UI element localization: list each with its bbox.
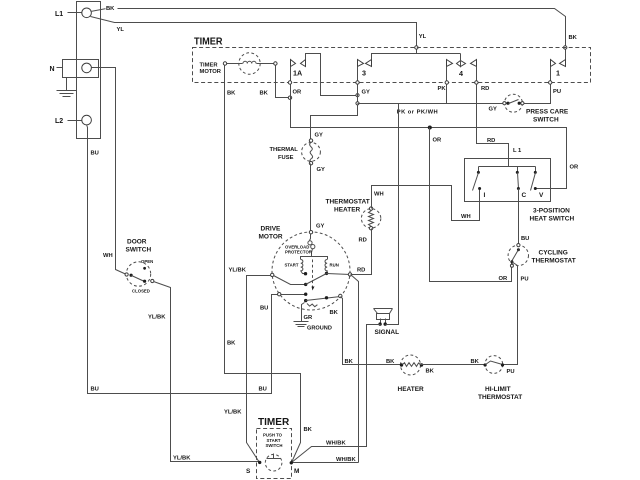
cycling thermostat S5 — [508, 244, 528, 268]
svg-text:SWITCH: SWITCH — [533, 117, 559, 124]
3-position heat switch S3 — [465, 159, 551, 202]
svg-text:L1: L1 — [55, 11, 63, 18]
timer motor M1 — [223, 53, 277, 74]
svg-text:BU: BU — [91, 151, 99, 157]
svg-text:MOTOR: MOTOR — [259, 234, 283, 241]
label 3-POSITION HEAT SWITCH — [530, 207, 575, 222]
svg-text:N: N — [50, 66, 55, 73]
label PRESS CARE SWITCH — [526, 109, 569, 124]
svg-text:BK: BK — [227, 341, 236, 347]
label DOOR SWITCH — [126, 239, 152, 254]
svg-text:HEATER: HEATER — [334, 206, 361, 213]
node GY at timer border — [356, 81, 359, 84]
svg-text:BK: BK — [106, 6, 115, 12]
svg-text:WH/BK: WH/BK — [326, 441, 346, 447]
node BK at timer border — [564, 46, 567, 49]
svg-text:HEAT SWITCH: HEAT SWITCH — [530, 215, 575, 222]
ground symbol at neutral — [57, 78, 77, 97]
svg-text:PU: PU — [553, 89, 561, 95]
motor winding top bracket — [301, 257, 328, 260]
svg-text:BU: BU — [521, 236, 529, 242]
start winding — [301, 260, 306, 274]
label PK or PK/WH — [396, 105, 445, 115]
svg-text:DOOR: DOOR — [127, 239, 147, 246]
svg-text:YL/BK: YL/BK — [224, 410, 242, 416]
wire WH neutral to door switch — [92, 68, 127, 275]
svg-text:YL/BK: YL/BK — [229, 267, 247, 273]
svg-text:HEATER: HEATER — [398, 386, 425, 393]
label CYCLING THERMOSTAT — [532, 250, 576, 265]
svg-text:OR: OR — [499, 276, 509, 282]
svg-text:GY: GY — [489, 106, 498, 112]
label HI-LIMIT THERMOSTAT — [478, 386, 522, 401]
timer box (top) — [193, 48, 591, 83]
svg-text:SWITCH: SWITCH — [126, 247, 152, 254]
node OR at timer border — [288, 81, 291, 84]
overload protector — [308, 234, 315, 257]
svg-text:YL/BK: YL/BK — [148, 314, 166, 320]
wire BU heat switch C to cycling thermostat — [518, 189, 520, 246]
svg-text:TIMER: TIMER — [200, 63, 219, 69]
terminal L2 label — [55, 118, 82, 125]
svg-text:RD: RD — [487, 138, 495, 144]
svg-text:MOTOR: MOTOR — [200, 69, 222, 75]
svg-text:M: M — [294, 468, 299, 475]
wire OR junction to cycling thermostat — [430, 128, 512, 282]
timer push-to-start box — [257, 429, 292, 479]
wire WH/BK lower to motor RD node — [351, 275, 359, 463]
svg-text:1: 1 — [556, 69, 560, 78]
label DRIVE MOTOR — [259, 226, 283, 241]
wire BK motor switch to heater — [341, 297, 402, 365]
signal buzzer LS1 — [374, 309, 393, 326]
svg-text:RD: RD — [357, 267, 365, 273]
svg-text:YL: YL — [117, 27, 125, 33]
svg-text:V: V — [539, 192, 544, 199]
svg-text:GY: GY — [316, 224, 325, 230]
svg-text:BU: BU — [91, 386, 99, 392]
node 1A blade to GY pole — [356, 94, 359, 97]
wire PU contact 1 pole to press care switch — [523, 67, 551, 104]
svg-text:TIMER: TIMER — [194, 36, 223, 48]
wire GY thermal fuse to drive motor — [310, 164, 312, 233]
svg-text:S: S — [246, 468, 251, 475]
wire OR contact 1A pole to heat switch V — [291, 67, 567, 189]
terminal block TB1 — [63, 2, 101, 139]
svg-text:RUN: RUN — [330, 263, 339, 268]
svg-text:GROUND: GROUND — [307, 326, 332, 332]
label TIMER MOTOR — [200, 63, 222, 76]
label BK (top left) — [106, 3, 118, 12]
svg-text:DRIVE: DRIVE — [261, 226, 282, 233]
svg-text:BK: BK — [227, 91, 236, 97]
timer contact 4 — [447, 54, 477, 79]
svg-text:BK: BK — [260, 91, 269, 97]
centrifugal actuator dashed line with arrow — [312, 260, 315, 291]
svg-text:WH: WH — [374, 191, 384, 197]
run winding — [325, 260, 328, 274]
svg-text:WH: WH — [461, 214, 471, 220]
push-to-start switch S4 — [258, 454, 293, 472]
svg-text:OR: OR — [293, 90, 303, 96]
hi-limit thermostat S6 — [484, 356, 505, 374]
wire BU from L2 to drive motor — [87, 125, 306, 394]
wire BK heater to hi-limit — [420, 364, 486, 366]
node BU at motor circle edge — [278, 293, 281, 296]
press care switch S2 — [503, 94, 524, 112]
svg-text:BK: BK — [304, 427, 313, 433]
label PUSH TO START SWITCH — [263, 433, 283, 449]
label THERMAL FUSE — [270, 147, 299, 161]
wire YL/BK branch to drive motor — [247, 276, 271, 463]
svg-text:4: 4 — [459, 69, 463, 78]
svg-text:THERMOSTAT: THERMOSTAT — [326, 198, 370, 205]
svg-text:TIMER: TIMER — [258, 416, 290, 428]
terminal N label — [50, 66, 63, 73]
motor ground blade — [304, 294, 342, 306]
svg-text:BK: BK — [345, 359, 354, 365]
svg-text:I: I — [484, 192, 486, 199]
node BK-OR junction — [288, 96, 291, 99]
svg-text:BK: BK — [426, 368, 435, 374]
svg-text:SIGNAL: SIGNAL — [375, 329, 400, 336]
door switch S1 — [125, 262, 154, 286]
svg-text:3: 3 — [362, 69, 366, 78]
svg-text:CLOSED: CLOSED — [132, 289, 150, 294]
svg-text:PU: PU — [507, 369, 515, 375]
svg-text:START: START — [267, 438, 281, 443]
svg-text:C: C — [522, 192, 527, 199]
contact BU (motor) — [304, 293, 307, 296]
wire YL from L1 to timer — [91, 17, 417, 54]
svg-text:START: START — [285, 263, 299, 268]
wire PK contact 4 pole — [446, 67, 448, 104]
wire PK/GY node to press care switch — [358, 103, 503, 105]
svg-text:SWITCH: SWITCH — [266, 443, 283, 448]
node GY at motor circle — [309, 231, 312, 234]
svg-text:THERMOSTAT: THERMOSTAT — [478, 394, 522, 401]
wire GY contact 3 pole to thermal fuse — [311, 67, 358, 141]
svg-text:OR: OR — [570, 164, 580, 170]
svg-text:BU: BU — [259, 386, 267, 392]
svg-text:3-POSITION: 3-POSITION — [533, 207, 570, 214]
svg-text:1A: 1A — [293, 69, 302, 78]
svg-text:GR: GR — [304, 315, 314, 321]
node RD at timer border — [475, 81, 478, 84]
svg-text:BU: BU — [260, 306, 268, 312]
svg-text:OPEN: OPEN — [141, 259, 153, 264]
label OVERLOAD PROTECTOR — [285, 244, 313, 254]
thermal fuse F1 — [302, 139, 321, 165]
wire BK from L1 to timer contact 1 — [91, 9, 566, 60]
svg-text:CYCLING: CYCLING — [539, 250, 568, 257]
wire BK timer motor left to push-to-start M — [225, 66, 301, 463]
timer contact 3 — [358, 54, 461, 78]
wire WH/BK lower horizontal to push-to-start M — [292, 462, 359, 464]
svg-text:FUSE: FUSE — [278, 155, 294, 161]
svg-text:PRESS CARE: PRESS CARE — [526, 109, 569, 116]
label THERMOSTAT HEATER — [326, 198, 370, 213]
node PU at timer border — [549, 81, 552, 84]
node RD at motor circle — [348, 273, 351, 276]
wire PK/WH signal right to timer line — [386, 104, 399, 325]
node GY press-care branch — [356, 102, 359, 105]
drive motor M2 circle — [272, 232, 350, 310]
svg-text:L2: L2 — [55, 118, 63, 125]
svg-text:PROTECTOR: PROTECTOR — [285, 249, 313, 254]
svg-text:RD: RD — [359, 238, 367, 244]
svg-text:RD: RD — [481, 86, 489, 92]
svg-text:PK or PK/WH: PK or PK/WH — [397, 110, 438, 116]
svg-text:PK: PK — [438, 86, 447, 92]
node YL at timer border — [415, 46, 418, 49]
wire YL/BK door switch to push-to-start S — [154, 282, 260, 462]
timer contact 1A — [291, 54, 358, 96]
wire RD thermostat heater to motor run winding — [351, 229, 372, 275]
svg-text:HI-LIMIT: HI-LIMIT — [485, 386, 511, 393]
wire BK timer motor right to contact 1A pole — [276, 66, 291, 98]
node PK at timer border — [445, 81, 448, 84]
contact run bottom (motor) — [325, 272, 328, 275]
svg-text:THERMOSTAT: THERMOSTAT — [532, 258, 576, 265]
heater R1 — [400, 355, 423, 375]
timer contact 1 — [551, 60, 566, 78]
svg-text:BK: BK — [386, 359, 395, 365]
wire RD contact 4 pole to heat switch L1 — [477, 67, 509, 167]
svg-text:GY: GY — [362, 90, 371, 96]
ground symbol at motor — [294, 303, 309, 327]
svg-text:GY: GY — [315, 133, 324, 139]
wire run bottom to RD node — [327, 274, 351, 275]
svg-text:YL: YL — [419, 34, 427, 40]
svg-text:BK: BK — [569, 35, 578, 41]
terminal L1 label — [55, 11, 82, 18]
svg-text:PUSH TO: PUSH TO — [263, 433, 283, 438]
wire WH/BK signal left to push-to-start M — [292, 325, 381, 463]
svg-text:WH/BK: WH/BK — [336, 457, 356, 463]
svg-text:L 1: L 1 — [513, 148, 522, 154]
svg-text:OR: OR — [433, 138, 443, 144]
wire WH thermostat heater to heat switch I — [372, 186, 480, 221]
svg-text:BK: BK — [330, 310, 339, 316]
wire PU cycling thermostat to hi-limit thermostat — [503, 266, 518, 365]
svg-text:PU: PU — [521, 277, 529, 283]
motor main blade from YL/BK — [271, 273, 327, 286]
svg-text:BK: BK — [471, 359, 480, 365]
svg-text:WH: WH — [103, 253, 113, 259]
junction OR branch — [428, 126, 432, 130]
contact start (motor) — [304, 272, 307, 275]
svg-text:GY: GY — [317, 167, 326, 173]
svg-text:YL/BK: YL/BK — [173, 455, 191, 461]
thermostat heater R2 — [361, 207, 380, 230]
svg-text:THERMAL: THERMAL — [270, 147, 299, 153]
